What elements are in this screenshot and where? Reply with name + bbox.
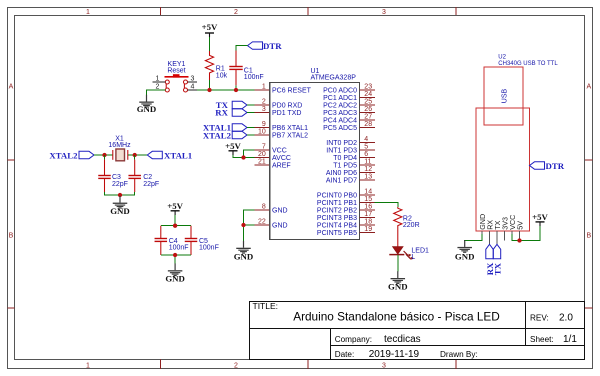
wire U2 GND pin to ground	[465, 234, 482, 241]
ground at KEY1	[137, 95, 157, 115]
wire +5V to R1	[209, 37, 211, 51]
wire KEY1 pin2 to ground	[147, 90, 166, 95]
svg-text:AVCC: AVCC	[272, 155, 291, 162]
svg-text:15: 15	[364, 196, 372, 203]
crystal X1 16MHz	[108, 135, 131, 161]
svg-text:USB: USB	[501, 88, 508, 103]
svg-text:4: 4	[364, 136, 368, 143]
junction bottom rail	[173, 253, 177, 257]
net flag RX bottom	[485, 244, 495, 275]
svg-text:tecdicas: tecdicas	[384, 334, 421, 345]
svg-text:GND: GND	[272, 208, 288, 215]
wire RX to U1 pin3	[247, 112, 255, 114]
wire U1 GND pins	[244, 210, 255, 242]
svg-text:B: B	[586, 233, 591, 240]
svg-text:28: 28	[364, 121, 372, 128]
capacitor C3 22pF	[98, 155, 128, 192]
IC U1 ATMEGA328P	[270, 68, 360, 240]
svg-text:3: 3	[382, 9, 386, 16]
power flag +5V at C4/C5	[167, 201, 183, 215]
net flag DTR top	[248, 41, 283, 51]
wire R2 to LED1	[397, 229, 399, 247]
svg-text:2: 2	[156, 84, 160, 91]
net flag TX	[216, 100, 247, 110]
svg-text:Date:: Date:	[335, 350, 355, 359]
net flag XTAL1 right	[147, 150, 192, 160]
svg-text:PC5 ADC5: PC5 ADC5	[323, 125, 357, 132]
svg-text:AREF: AREF	[272, 163, 291, 170]
capacitor C2 22pF	[128, 155, 159, 192]
svg-text:17: 17	[364, 211, 372, 218]
wire R1 to reset net	[209, 80, 211, 90]
svg-text:T0 PD4: T0 PD4	[333, 155, 357, 162]
svg-text:GND: GND	[165, 273, 185, 283]
svg-text:PC6 RESET: PC6 RESET	[272, 88, 312, 95]
svg-text:REV:: REV:	[530, 313, 549, 322]
net flag DTR right	[530, 161, 565, 171]
svg-text:PC2 ADC2: PC2 ADC2	[323, 103, 357, 110]
wire U2 VCC/5V to +5V	[512, 226, 540, 241]
svg-text:GND: GND	[455, 251, 475, 261]
pushbutton KEY1 Reset	[153, 61, 198, 92]
ground at U2	[455, 240, 475, 261]
capacitor C4 100nF	[155, 226, 189, 255]
svg-text:INT1 PD3: INT1 PD3	[326, 148, 357, 155]
svg-text:220R: 220R	[403, 222, 420, 229]
capacitor C1 100nF	[229, 51, 263, 86]
wire TX to U1 pin2	[247, 104, 255, 106]
svg-text:3: 3	[191, 76, 195, 83]
svg-text:CH340G USB TO TTL: CH340G USB TO TTL	[498, 61, 558, 67]
net flag RX	[215, 108, 247, 118]
wire XTAL1 to U1 pin9	[247, 127, 255, 129]
U1 right pin lines	[359, 90, 375, 233]
svg-text:5: 5	[364, 144, 368, 151]
svg-text:100nF: 100nF	[199, 245, 219, 252]
junction XTAL2/C3	[102, 153, 106, 157]
svg-text:27: 27	[364, 114, 372, 121]
module U2 CH340G USB TO TTL	[476, 54, 558, 231]
wire +5V to VCC/AVCC	[233, 150, 255, 158]
svg-text:Arduino Standalone básico - Pi: Arduino Standalone básico - Pisca LED	[293, 310, 500, 324]
svg-text:+5V: +5V	[532, 212, 548, 222]
junction top rail	[173, 224, 177, 228]
wire LED1 to ground	[397, 255, 399, 271]
svg-text:5V: 5V	[515, 221, 524, 230]
svg-text:2: 2	[234, 9, 238, 16]
svg-text:T1 PD5: T1 PD5	[333, 163, 357, 170]
power flag +5V at VCC	[225, 141, 241, 155]
svg-text:10k: 10k	[216, 72, 228, 79]
svg-text:Sheet:: Sheet:	[530, 335, 554, 344]
ground at C4/C5	[165, 263, 185, 283]
svg-text:PCINT4 PB4: PCINT4 PB4	[317, 223, 357, 230]
svg-text:PCINT3 PB3: PCINT3 PB3	[317, 215, 357, 222]
svg-text:AIN1 PD7: AIN1 PD7	[326, 178, 357, 185]
svg-text:PB6 XTAL1: PB6 XTAL1	[272, 125, 308, 132]
power flag +5V at U2	[532, 212, 548, 226]
ground at U1	[234, 241, 254, 262]
svg-text:1: 1	[262, 84, 266, 91]
svg-text:GND: GND	[388, 281, 408, 291]
svg-text:C3: C3	[112, 174, 121, 181]
svg-text:PCINT2 PB2: PCINT2 PB2	[317, 208, 357, 215]
wire C3/C2 to ground	[105, 192, 135, 197]
svg-text:12: 12	[364, 166, 372, 173]
svg-text:+5V: +5V	[167, 201, 183, 211]
ground at crystal caps	[110, 196, 130, 216]
svg-text:A: A	[586, 84, 591, 91]
svg-text:XTAL2: XTAL2	[203, 130, 232, 140]
junction crystal ground	[118, 193, 122, 197]
wire C1 to reset net	[235, 85, 237, 90]
junction 5V pin	[517, 238, 521, 242]
resistor R2 220R	[394, 207, 420, 229]
svg-text:Company:: Company:	[335, 335, 372, 344]
svg-text:XTAL1: XTAL1	[164, 150, 192, 160]
svg-text:GND: GND	[137, 104, 157, 114]
junction AVCC	[241, 155, 245, 159]
svg-text:11: 11	[364, 159, 371, 166]
U1 left pin names	[272, 88, 312, 230]
svg-text:C2: C2	[143, 174, 152, 181]
svg-text:25: 25	[364, 99, 372, 106]
svg-text:7: 7	[262, 144, 266, 151]
wire KEY1 pin4 to U1 pin1	[197, 89, 255, 91]
svg-text:8: 8	[262, 204, 266, 211]
svg-text:Reset: Reset	[167, 68, 185, 75]
svg-text:XTAL2: XTAL2	[49, 150, 78, 160]
svg-text:DTR: DTR	[546, 161, 565, 171]
wire XTAL2 to U1 pin10	[247, 134, 255, 136]
svg-text:6: 6	[364, 151, 368, 158]
wire XTAL2 to crystal	[94, 154, 113, 156]
svg-text:9: 9	[262, 121, 266, 128]
wire crystal to XTAL1 flag	[128, 154, 148, 156]
svg-text:B: B	[9, 233, 14, 240]
svg-text:4: 4	[191, 84, 195, 91]
svg-text:14: 14	[364, 189, 372, 196]
wire DTR to C1	[236, 46, 248, 51]
svg-text:2: 2	[262, 99, 266, 106]
svg-text:PCINT1 PB1: PCINT1 PB1	[317, 200, 357, 207]
svg-text:100nF: 100nF	[244, 74, 264, 81]
resistor R1 10k	[205, 51, 227, 80]
svg-text:21: 21	[258, 159, 266, 166]
svg-text:3: 3	[382, 363, 386, 370]
svg-text:GND: GND	[110, 206, 130, 216]
U2 pin stubs	[482, 231, 520, 244]
capacitor C5 100nF	[185, 226, 219, 255]
svg-text:VCC: VCC	[272, 148, 287, 155]
U1 left pin lines	[255, 90, 270, 225]
ground at LED1	[388, 271, 408, 291]
net flag XTAL2 at U1	[203, 130, 247, 140]
svg-text:AIN0 PD6: AIN0 PD6	[326, 170, 357, 177]
junction C1/reset	[234, 88, 238, 92]
svg-text:GND: GND	[234, 251, 254, 261]
svg-text:PC0 ADC0: PC0 ADC0	[323, 88, 357, 95]
svg-text:PC3 ADC3: PC3 ADC3	[323, 110, 357, 117]
svg-text:INT0 PD2: INT0 PD2	[326, 140, 357, 147]
svg-text:A: A	[9, 84, 14, 91]
svg-text:24: 24	[364, 91, 372, 98]
svg-text:PB7 XTAL2: PB7 XTAL2	[272, 133, 308, 140]
svg-text:18: 18	[364, 219, 372, 226]
svg-text:1: 1	[86, 363, 90, 370]
svg-text:22: 22	[258, 219, 266, 226]
U1 right pin numbers	[364, 84, 372, 234]
svg-text:19: 19	[364, 226, 372, 233]
svg-text:26: 26	[364, 106, 372, 113]
U1 right pin names	[317, 88, 357, 238]
wire C4/C5 bottom rail to ground	[161, 255, 191, 264]
junction U1 GND pins	[241, 223, 245, 227]
junction XTAL1/C2	[133, 153, 137, 157]
svg-text:PCINT5 PB5: PCINT5 PB5	[317, 230, 357, 237]
svg-text:PCINT0 PB0: PCINT0 PB0	[317, 193, 357, 200]
U2 pin labels	[478, 214, 525, 230]
svg-text:PD0 RXD: PD0 RXD	[272, 103, 302, 110]
svg-text:1: 1	[156, 76, 160, 83]
svg-text:U2: U2	[498, 54, 506, 60]
svg-text:+5V: +5V	[225, 141, 241, 151]
svg-text:+5V: +5V	[202, 22, 218, 32]
svg-text:2: 2	[234, 363, 238, 370]
svg-text:PD1 TXD: PD1 TXD	[272, 110, 301, 117]
svg-text:22pF: 22pF	[143, 181, 159, 188]
svg-text:TITLE:: TITLE:	[253, 301, 279, 311]
svg-text:23: 23	[364, 84, 372, 91]
net flag XTAL1 at U1	[203, 123, 247, 133]
svg-text:16MHz: 16MHz	[108, 142, 131, 149]
svg-text:DTR: DTR	[263, 41, 282, 51]
svg-text:3: 3	[262, 106, 266, 113]
svg-text:20: 20	[258, 151, 266, 158]
wire +5V to C4/C5 rail	[161, 215, 191, 226]
svg-text:1: 1	[86, 9, 90, 16]
svg-text:GND: GND	[272, 223, 288, 230]
svg-text:2019-11-19: 2019-11-19	[369, 349, 420, 360]
svg-text:1/1: 1/1	[563, 334, 577, 345]
svg-text:16: 16	[364, 204, 372, 211]
svg-text:L: L	[411, 254, 415, 261]
junction R1/reset	[207, 88, 211, 92]
net flag TX bottom	[492, 244, 502, 275]
wire U1 pin15 to R2	[375, 203, 398, 208]
svg-text:ATMEGA328P: ATMEGA328P	[311, 75, 357, 82]
svg-text:PC4 ADC4: PC4 ADC4	[323, 118, 357, 125]
power flag +5V at R1	[202, 22, 218, 37]
svg-text:PC1 ADC1: PC1 ADC1	[323, 95, 357, 102]
svg-text:13: 13	[364, 174, 372, 181]
KEY1 pin numbers 1 2 3 4	[156, 76, 195, 91]
svg-text:100nF: 100nF	[169, 245, 189, 252]
svg-text:TX: TX	[492, 262, 502, 275]
LED LED1	[389, 247, 429, 261]
net flag XTAL2 left	[49, 150, 94, 160]
U1 left pin numbers	[258, 84, 266, 226]
svg-text:RX: RX	[215, 108, 228, 118]
title block	[250, 301, 585, 360]
svg-text:10: 10	[258, 129, 266, 136]
svg-text:2.0: 2.0	[559, 312, 573, 323]
svg-text:22pF: 22pF	[112, 181, 128, 188]
svg-text:Drawn By:: Drawn By:	[440, 350, 478, 359]
